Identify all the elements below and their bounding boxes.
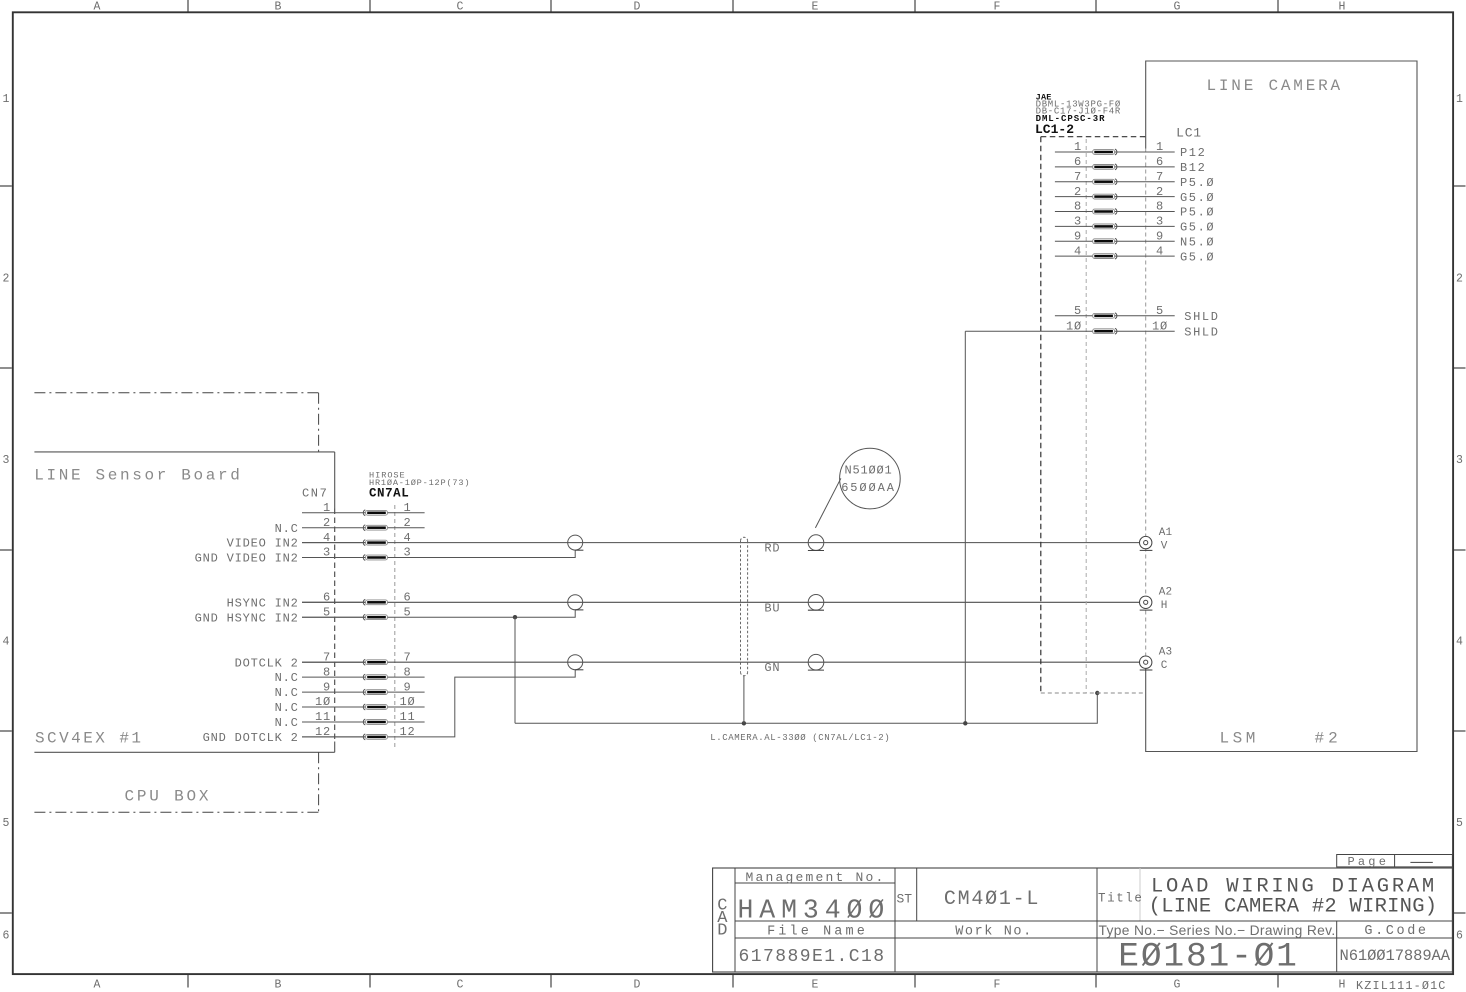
svg-text:EØ181-Ø1: EØ181-Ø1 (1118, 937, 1298, 976)
svg-text:N61ØØ17889AA: N61ØØ17889AA (1340, 947, 1451, 965)
connector CN7AL pin 8 (275, 665, 425, 685)
connector LC1 pin 1 (1055, 140, 1207, 160)
svg-text:B: B (275, 1, 282, 14)
svg-text:CN7AL: CN7AL (369, 487, 409, 501)
svg-text:G: G (1174, 979, 1181, 992)
svg-text:D: D (717, 922, 727, 941)
svg-text:N.C: N.C (275, 716, 299, 730)
net GND HSYNC IN2 wire (302, 610, 575, 617)
svg-text:N.C: N.C (275, 671, 299, 685)
CPU BOX boundary lower dash-dot line (34, 811, 318, 813)
reference balloon N51001 6500AA (840, 448, 901, 509)
svg-text:1: 1 (403, 501, 411, 515)
svg-text:C: C (457, 1, 464, 14)
svg-text:9: 9 (323, 680, 331, 694)
svg-text:E: E (812, 979, 819, 992)
svg-text:F: F (994, 1, 1001, 14)
connector LC1 pin 9 (1055, 229, 1215, 249)
svg-text:File Name: File Name (767, 925, 868, 940)
svg-text:3: 3 (323, 546, 331, 560)
svg-text:(LINE CAMERA #2 WIRING): (LINE CAMERA #2 WIRING) (1149, 895, 1438, 918)
svg-text:12: 12 (399, 725, 415, 739)
svg-text:LSM: LSM (1220, 730, 1259, 748)
splice joint right RD (808, 535, 824, 551)
shield bus wire (515, 693, 1097, 723)
svg-text:A: A (94, 979, 101, 992)
svg-text:ST: ST (897, 892, 913, 907)
svg-text:L.CAMERA.AL-33ØØ (CN7AL/LC1-2): L.CAMERA.AL-33ØØ (CN7AL/LC1-2) (710, 733, 890, 743)
CPU BOX boundary upper dash-dot line (34, 392, 318, 394)
svg-text:7: 7 (403, 650, 411, 664)
junction dot LC1 shield on shield bus (963, 721, 967, 725)
svg-text:H: H (1161, 600, 1168, 612)
connector LC1 pin 10 (965, 319, 1219, 339)
svg-text:2: 2 (1156, 185, 1164, 199)
svg-text:B: B (275, 979, 282, 992)
svg-text:3: 3 (1456, 454, 1463, 467)
connector LC1 pin 8 (1055, 200, 1215, 220)
svg-text:Title: Title (1098, 892, 1144, 906)
svg-text:7: 7 (1074, 170, 1082, 184)
svg-text:2: 2 (323, 516, 331, 530)
svg-text:SHLD: SHLD (1184, 325, 1219, 339)
svg-text:GN: GN (764, 661, 780, 675)
connector CN7AL pin 4 (227, 531, 412, 551)
svg-text:4: 4 (323, 531, 331, 545)
splice joint right BU (808, 595, 824, 611)
CPU BOX boundary upper vertical dash-dot (318, 393, 320, 452)
svg-text:VIDEO IN2: VIDEO IN2 (227, 537, 299, 551)
svg-text:5: 5 (403, 605, 411, 619)
svg-text:6: 6 (403, 591, 411, 605)
svg-text:2: 2 (403, 516, 411, 530)
shield wire up to LC1 pin 10 (964, 331, 966, 723)
svg-text:RD: RD (764, 542, 780, 556)
connector CN7AL pin 7 (235, 650, 412, 670)
svg-text:6: 6 (3, 930, 10, 943)
svg-text:12: 12 (315, 725, 331, 739)
svg-text:P5.Ø: P5.Ø (1180, 206, 1215, 220)
svg-text:#2: #2 (1315, 730, 1342, 748)
connector CN7AL pin 11 (275, 710, 425, 730)
net GND VIDEO IN2 wire (302, 550, 575, 557)
svg-text:7: 7 (323, 650, 331, 664)
Page number box (1337, 855, 1453, 870)
junction dot cable drain on shield bus (742, 721, 746, 725)
svg-text:C: C (457, 979, 464, 992)
connector CN7AL pin 9 (275, 680, 425, 700)
svg-text:G5.Ø: G5.Ø (1180, 221, 1215, 235)
svg-text:GND DOTCLK 2: GND DOTCLK 2 (203, 731, 299, 745)
svg-text:2: 2 (1456, 273, 1463, 286)
svg-text:1Ø: 1Ø (1066, 319, 1082, 333)
connector LC1 pin 4 (1055, 244, 1215, 264)
svg-text:Page: Page (1348, 855, 1390, 869)
connector CN7AL pin 6 (227, 591, 412, 611)
svg-text:1: 1 (323, 501, 331, 515)
svg-text:HAM34ØØ: HAM34ØØ (738, 896, 891, 926)
svg-text:6: 6 (1456, 930, 1463, 943)
svg-text:3: 3 (3, 454, 10, 467)
svg-text:GND HSYNC IN2: GND HSYNC IN2 (195, 611, 299, 625)
svg-text:8: 8 (1156, 200, 1164, 214)
svg-text:4: 4 (1074, 244, 1082, 258)
svg-text:N.C: N.C (275, 701, 299, 715)
svg-text:1: 1 (1456, 93, 1463, 106)
svg-text:HSYNC IN2: HSYNC IN2 (227, 596, 299, 610)
svg-text:CPU BOX: CPU BOX (125, 788, 212, 806)
svg-text:G.Code: G.Code (1364, 924, 1428, 939)
svg-text:1Ø: 1Ø (315, 695, 331, 709)
svg-text:C: C (1161, 660, 1168, 672)
svg-text:CM4Ø1-L: CM4Ø1-L (944, 888, 1040, 911)
connector LC1-2 dashed shell box (1041, 137, 1146, 693)
board edge dashed through connector CN7AL (334, 509, 336, 742)
connector CN7AL pin 5 (195, 605, 412, 625)
net GND DOTCLK 2 wire (302, 670, 575, 737)
svg-text:1: 1 (1074, 140, 1082, 154)
splice joint left BU (568, 595, 584, 610)
svg-text:P5.Ø: P5.Ø (1180, 176, 1215, 190)
svg-text:5: 5 (323, 605, 331, 619)
svg-text:1: 1 (1156, 140, 1164, 154)
svg-text:5: 5 (1074, 304, 1082, 318)
svg-text:N.C: N.C (275, 522, 299, 536)
svg-text:N5.Ø: N5.Ø (1180, 235, 1215, 249)
svg-text:A2: A2 (1159, 587, 1173, 599)
connector LC1 pin 3 (1055, 215, 1215, 235)
svg-text:2: 2 (3, 273, 10, 286)
connector LC1 pin 2 (1055, 185, 1215, 205)
LSM terminal A3 C (1140, 647, 1173, 672)
connector CN7AL pin 1 (302, 501, 425, 516)
connector LC1 pin 6 (1055, 155, 1207, 175)
svg-text:CN7: CN7 (302, 487, 328, 501)
svg-text:N.C: N.C (275, 686, 299, 700)
LINE CAMERA / LSM #2 enclosure box (1146, 61, 1417, 752)
svg-text:SHLD: SHLD (1184, 310, 1219, 324)
svg-text:1Ø: 1Ø (399, 695, 415, 709)
svg-text:4: 4 (3, 636, 10, 649)
svg-text:H: H (1339, 1, 1346, 14)
svg-text:G: G (1174, 1, 1181, 14)
svg-text:LINE Sensor Board: LINE Sensor Board (34, 467, 242, 485)
LSM terminal A2 H (1140, 587, 1173, 612)
svg-text:G5.Ø: G5.Ø (1180, 191, 1215, 205)
svg-text:GND VIDEO IN2: GND VIDEO IN2 (195, 552, 299, 566)
svg-text:11: 11 (399, 710, 415, 724)
svg-text:N51ØØ1: N51ØØ1 (844, 463, 892, 477)
svg-text:617889E1.C18: 617889E1.C18 (739, 947, 886, 967)
svg-text:A3: A3 (1159, 647, 1173, 659)
junction dot on GND HSYNC wire (513, 615, 517, 619)
connector LC1 pin 5 (1055, 304, 1220, 324)
svg-text:6: 6 (1074, 155, 1082, 169)
svg-text:8: 8 (323, 665, 331, 679)
title block (713, 868, 1453, 972)
svg-text:9: 9 (1074, 229, 1082, 243)
connector CN7AL pin 3 (195, 546, 412, 566)
svg-text:65ØØAA: 65ØØAA (841, 481, 896, 495)
junction dot on LC1-2 connector shell (1095, 691, 1099, 695)
svg-text:A: A (94, 1, 101, 14)
svg-text:4: 4 (1456, 636, 1463, 649)
net HSYNC IN2 / BU wire to LSM A2 (302, 601, 1140, 603)
svg-text:6: 6 (323, 591, 331, 605)
svg-text:9: 9 (403, 680, 411, 694)
svg-text:5: 5 (3, 817, 10, 830)
svg-text:G5.Ø: G5.Ø (1180, 250, 1215, 264)
svg-text:LC1: LC1 (1176, 126, 1202, 141)
svg-text:D: D (634, 979, 641, 992)
svg-text:E: E (812, 1, 819, 14)
svg-text:LINE CAMERA: LINE CAMERA (1207, 77, 1343, 95)
svg-text:KZIL111-Ø1C: KZIL111-Ø1C (1356, 979, 1447, 992)
net VIDEO IN2 / RD wire to LSM A1 (302, 542, 1140, 544)
svg-text:3: 3 (403, 546, 411, 560)
svg-text:B12: B12 (1180, 161, 1206, 175)
svg-text:8: 8 (1074, 200, 1082, 214)
svg-text:D: D (634, 1, 641, 14)
svg-text:F: F (994, 979, 1001, 992)
svg-text:1Ø: 1Ø (1152, 319, 1168, 333)
svg-text:3: 3 (1156, 215, 1164, 229)
connector LC1 pin 7 (1055, 170, 1215, 190)
splice joint left RD (568, 535, 584, 550)
svg-text:Type No.− Series No.− Drawing: Type No.− Series No.− Drawing Rev. (1099, 923, 1336, 938)
net DOTCLK 2 / GN wire to LSM A3 (302, 661, 1140, 663)
svg-text:7: 7 (1156, 170, 1164, 184)
svg-text:Work No.: Work No. (955, 925, 1033, 940)
svg-text:5: 5 (1456, 817, 1463, 830)
svg-text:5: 5 (1156, 304, 1164, 318)
svg-text:6: 6 (1156, 155, 1164, 169)
connector CN7AL pin 10 (275, 695, 425, 715)
CPU BOX boundary lower vertical dash-dot (318, 752, 320, 812)
svg-text:LC1-2: LC1-2 (1035, 122, 1074, 137)
svg-text:8: 8 (403, 665, 411, 679)
connector LC1-2 inner dashed line (1085, 139, 1087, 693)
connector CN7AL dashed boundary right (394, 505, 396, 747)
svg-text:P12: P12 (1180, 146, 1206, 160)
svg-text:4: 4 (1156, 244, 1164, 258)
svg-text:3: 3 (1074, 215, 1082, 229)
cable jacket symbol (dashed sheath) (741, 537, 748, 676)
svg-text:9: 9 (1156, 229, 1164, 243)
svg-text:SCV4EX #1: SCV4EX #1 (35, 730, 143, 748)
connector CN7AL pin 2 (275, 516, 425, 536)
connector CN7AL pin 12 (203, 725, 416, 745)
splice joint right GN (808, 654, 824, 670)
svg-text:V: V (1161, 540, 1168, 552)
svg-text:BU: BU (764, 601, 780, 615)
svg-text:H: H (1339, 979, 1346, 992)
svg-text:A1: A1 (1159, 527, 1173, 539)
LSM terminal A1 V (1140, 527, 1173, 552)
LINE Sensor Board box (34, 452, 334, 752)
svg-text:1: 1 (3, 93, 10, 106)
svg-text:2: 2 (1074, 185, 1082, 199)
shield drop wire from GND HSYNC junction (514, 617, 516, 723)
splice joint left GN (568, 655, 584, 670)
svg-text:Management No.: Management No. (746, 870, 886, 885)
balloon leader line (815, 478, 841, 528)
cable shield drain wire (743, 676, 745, 724)
svg-text:DOTCLK 2: DOTCLK 2 (235, 656, 299, 670)
svg-text:11: 11 (315, 710, 331, 724)
svg-text:4: 4 (403, 531, 411, 545)
